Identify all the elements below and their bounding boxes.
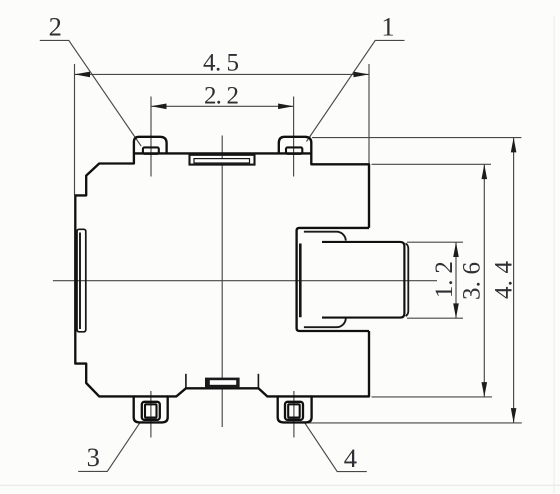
bottom-left lug boss [142, 402, 160, 420]
top-right lug crosshair / 2.2 extension [293, 97, 295, 177]
left slot [77, 229, 86, 331]
dim 4.5 left extension [74, 64, 76, 195]
arrow 2.2 left [151, 104, 167, 110]
leader 3 [78, 423, 139, 471]
arrow 1.2 bottom [453, 303, 459, 318]
dim 4.4 bottom extension [306, 422, 522, 424]
leader 4 [305, 423, 367, 472]
top-left lug crosshair / 2.2 extension [150, 97, 152, 177]
dim 3.6 line [483, 164, 485, 397]
svg-text:3. 6: 3. 6 [459, 262, 486, 300]
top-left lug notch [143, 147, 159, 153]
plunger boss [297, 228, 369, 331]
bottom-right lug hole [288, 404, 300, 417]
arrow 4.5 right [354, 72, 370, 78]
body outline [75, 137, 369, 423]
dim 2.2 line [151, 105, 294, 107]
bottom-left lug crosshair [150, 391, 152, 438]
leader 2 [40, 40, 141, 146]
svg-text:1: 1 [381, 12, 394, 42]
svg-text:1. 2: 1. 2 [431, 261, 458, 298]
svg-text:3: 3 [87, 442, 100, 472]
dim 1.2 top extension [407, 241, 463, 243]
arrow 4.4 bottom [511, 408, 517, 423]
bottom step tick left [185, 374, 187, 389]
boss top fillet [304, 232, 346, 241]
faint page edge right [554, 16, 555, 494]
arrow 1.2 top [453, 242, 459, 257]
svg-text:2. 2: 2. 2 [204, 83, 239, 110]
left slot inner line [79, 233, 81, 330]
faint page edge bottom [0, 485, 560, 486]
dim 1.2 bottom extension [407, 317, 463, 319]
body top line under left lug [134, 152, 167, 154]
svg-text:4. 4: 4. 4 [491, 261, 518, 300]
svg-text:2: 2 [49, 12, 62, 42]
top-right lug notch [286, 147, 302, 153]
bottom-right lug boss [285, 402, 303, 420]
dim 4.4 line [513, 138, 515, 423]
dim 3.6 top extension [372, 163, 492, 165]
centerline vertical [221, 136, 223, 428]
dim 4.4 top extension [312, 137, 521, 139]
dim 4.5 line [75, 73, 370, 75]
plunger face line [406, 243, 409, 316]
svg-text:4. 5: 4. 5 [203, 50, 239, 77]
arrow 2.2 right [278, 104, 294, 110]
bottom-right lug crosshair [293, 391, 295, 438]
top plate [190, 155, 255, 165]
arrow 4.4 top [511, 138, 517, 153]
boss seam [299, 244, 302, 318]
dim 3.6 bottom extension [372, 396, 493, 398]
arrow 4.5 left [75, 72, 91, 78]
arrow 3.6 top [482, 164, 488, 179]
centerline horizontal [53, 280, 437, 282]
plunger [322, 242, 404, 318]
bottom plate [205, 378, 240, 388]
body bottom line under left lug [134, 395, 168, 397]
bottom plate window [210, 380, 236, 385]
body bottom line under right lug [278, 395, 312, 397]
dim 4.5 right extension [368, 64, 370, 164]
leader 1 [307, 40, 405, 141]
arrow 3.6 bottom [482, 382, 488, 397]
bottom-left lug hole [145, 404, 157, 417]
body top line under right lug [279, 152, 312, 154]
boss bottom fillet [304, 318, 346, 327]
top plate inner window [194, 159, 250, 163]
dim 1.2 line [455, 242, 457, 318]
bottom step tick right [257, 374, 259, 389]
svg-text:4: 4 [344, 443, 357, 473]
